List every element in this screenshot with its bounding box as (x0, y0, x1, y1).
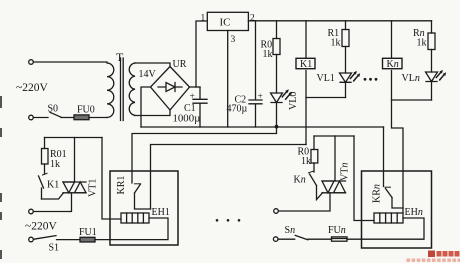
wire channel n feed down to EHn left (354, 136, 374, 221)
wire FU1 to EH1 loop (95, 218, 168, 240)
appliance box KRn/EHn (362, 171, 432, 248)
svg-text:FUn: FUn (328, 225, 346, 236)
wire VT1 MT2 to feed (74, 138, 76, 183)
ellipsis dots between channels (top) (364, 78, 378, 81)
svg-text:+: + (190, 92, 195, 102)
node junction dot VL0/ground rail (275, 125, 279, 129)
op-amp U1 : IC voltage regulator box (207, 12, 248, 30)
wire bus B (K1 coil return to KR1 blade) (151, 145, 307, 210)
resistor Rn (413, 21, 435, 72)
node AC input terminal top (29, 60, 34, 65)
svg-text:VT1: VT1 (88, 179, 99, 197)
svg-text:S0: S0 (48, 104, 59, 115)
wire channel 1 feed down to EH1 left (102, 138, 121, 220)
fuse FU1 (79, 227, 97, 242)
wire secondary top to bridge (135, 63, 170, 67)
heater EH1 (121, 207, 170, 223)
ellipsis dots between channels (bottom) (216, 219, 241, 222)
appliance box KR1/EH1 (110, 171, 178, 245)
thermostat contact KRn (372, 184, 404, 208)
wire VTn MT1 to mains terminal (278, 193, 330, 211)
svg-text:~220V: ~220V (16, 82, 48, 94)
node mains terminal channel n bottom (273, 237, 278, 242)
wire VTn MT2 to feed (334, 136, 336, 181)
svg-text:2: 2 (250, 13, 255, 23)
node mains terminal channel 1 bottom (29, 237, 34, 242)
wire K1 coil bottom down to bus B (305, 71, 307, 145)
transformer T core (121, 58, 124, 121)
wire node plus to IC pin 1 (196, 21, 207, 87)
svg-text:Kn: Kn (387, 59, 399, 70)
svg-text:K1: K1 (47, 180, 59, 191)
resistor R0n (298, 136, 318, 172)
transformer T primary winding (107, 63, 114, 118)
svg-text:1k: 1k (417, 38, 427, 49)
wire bus A (KR1 sense to ground) (132, 127, 277, 183)
wire ground rail (141, 126, 384, 128)
heater EHn (374, 207, 423, 223)
svg-text:1k: 1k (50, 159, 60, 170)
wire ground rail down to KRn contact (383, 127, 385, 187)
switch S1 (34, 236, 59, 254)
wire channel n feed (314, 135, 354, 137)
svg-text:1k: 1k (331, 38, 341, 49)
svg-text:VL1: VL1 (317, 73, 335, 84)
transformer T secondary winding (129, 63, 135, 116)
svg-text:IC: IC (220, 17, 231, 29)
svg-text:EH1: EH1 (152, 207, 170, 218)
bridge rectifier UR (139, 59, 190, 110)
svg-text:Kn: Kn (294, 175, 306, 186)
wire K1 bottom to VL1 cathode (306, 97, 346, 99)
wire gate of VTn (317, 186, 323, 200)
svg-text:FU0: FU0 (77, 105, 95, 116)
scan artifacts left edge (0, 96, 2, 259)
wire IC pin 3 to ground rail (227, 31, 229, 128)
wire bridge plus output to C1 node (190, 86, 201, 88)
svg-text:VL0: VL0 (288, 92, 299, 110)
svg-text:UR: UR (173, 59, 187, 70)
wire Kn coil bottom to VLn cathode (392, 71, 432, 101)
svg-text:3: 3 (231, 35, 236, 45)
svg-text:+: + (258, 92, 263, 102)
svg-text:1000µ: 1000µ (173, 113, 201, 125)
svg-text:VTn: VTn (340, 163, 351, 181)
resistor R1 (328, 21, 350, 73)
svg-text:KR1: KR1 (116, 176, 127, 195)
node mains terminal channel 1 top (29, 209, 34, 214)
svg-text:K1: K1 (300, 59, 312, 70)
thermostat contact KR1 (116, 176, 151, 209)
wire secondary bottom to bridge (135, 110, 170, 116)
LED VL0 (271, 89, 300, 126)
switch Sn (278, 225, 308, 240)
switch contact K1 (channel 1 gate) (39, 173, 60, 199)
svg-text:1k: 1k (263, 49, 273, 60)
LED VL1 (317, 71, 361, 98)
svg-text:470µ: 470µ (227, 104, 248, 115)
wire Sn to FUn (308, 238, 332, 240)
fuse FU0 (74, 105, 95, 120)
svg-text:Sn: Sn (285, 225, 296, 236)
node AC input terminal bottom (29, 115, 34, 120)
svg-text:KRn: KRn (372, 184, 383, 203)
capacitor C1 (173, 87, 208, 127)
wire IC pin 2 +V rail (248, 20, 431, 22)
wire gate of VT1 (42, 193, 64, 199)
wire FU0 to transformer primary bottom (89, 117, 107, 119)
relay coil Kn (383, 21, 403, 70)
wire S1 to FU1 (57, 239, 81, 241)
svg-text:~220V: ~220V (25, 221, 57, 233)
switch contact Kn (channel n gate) (294, 171, 317, 185)
triac VT1 (63, 179, 99, 197)
wire S0 to FU0 (61, 117, 74, 119)
fuse FUn (328, 225, 347, 241)
wire VT1 MT1 to mains terminal (33, 193, 71, 212)
node mains terminal channel n top (274, 209, 279, 214)
wire FUn to EHn loop (347, 218, 424, 239)
svg-text:EHn: EHn (405, 207, 423, 218)
wire Kn bottom jog down to KRn return (392, 100, 404, 213)
svg-text:1: 1 (201, 13, 206, 23)
watermark logo bottom right (407, 251, 460, 262)
svg-text:1k: 1k (301, 156, 311, 167)
svg-text:FU1: FU1 (79, 227, 97, 238)
switch S0 (33, 104, 61, 118)
svg-text:VLn: VLn (402, 73, 420, 84)
wire channel 1 feed (45, 137, 103, 139)
capacitor C2 (227, 21, 263, 127)
triac VTn (322, 163, 351, 193)
svg-text:S1: S1 (49, 243, 60, 254)
LED VLn (402, 70, 447, 100)
wire AC live to transformer primary top (33, 61, 107, 63)
svg-text:14V: 14V (139, 69, 157, 80)
wire bridge minus output riser (141, 87, 151, 127)
resistor R0 (261, 21, 281, 93)
relay coil K1 (296, 21, 315, 70)
resistor R01 (42, 138, 67, 175)
